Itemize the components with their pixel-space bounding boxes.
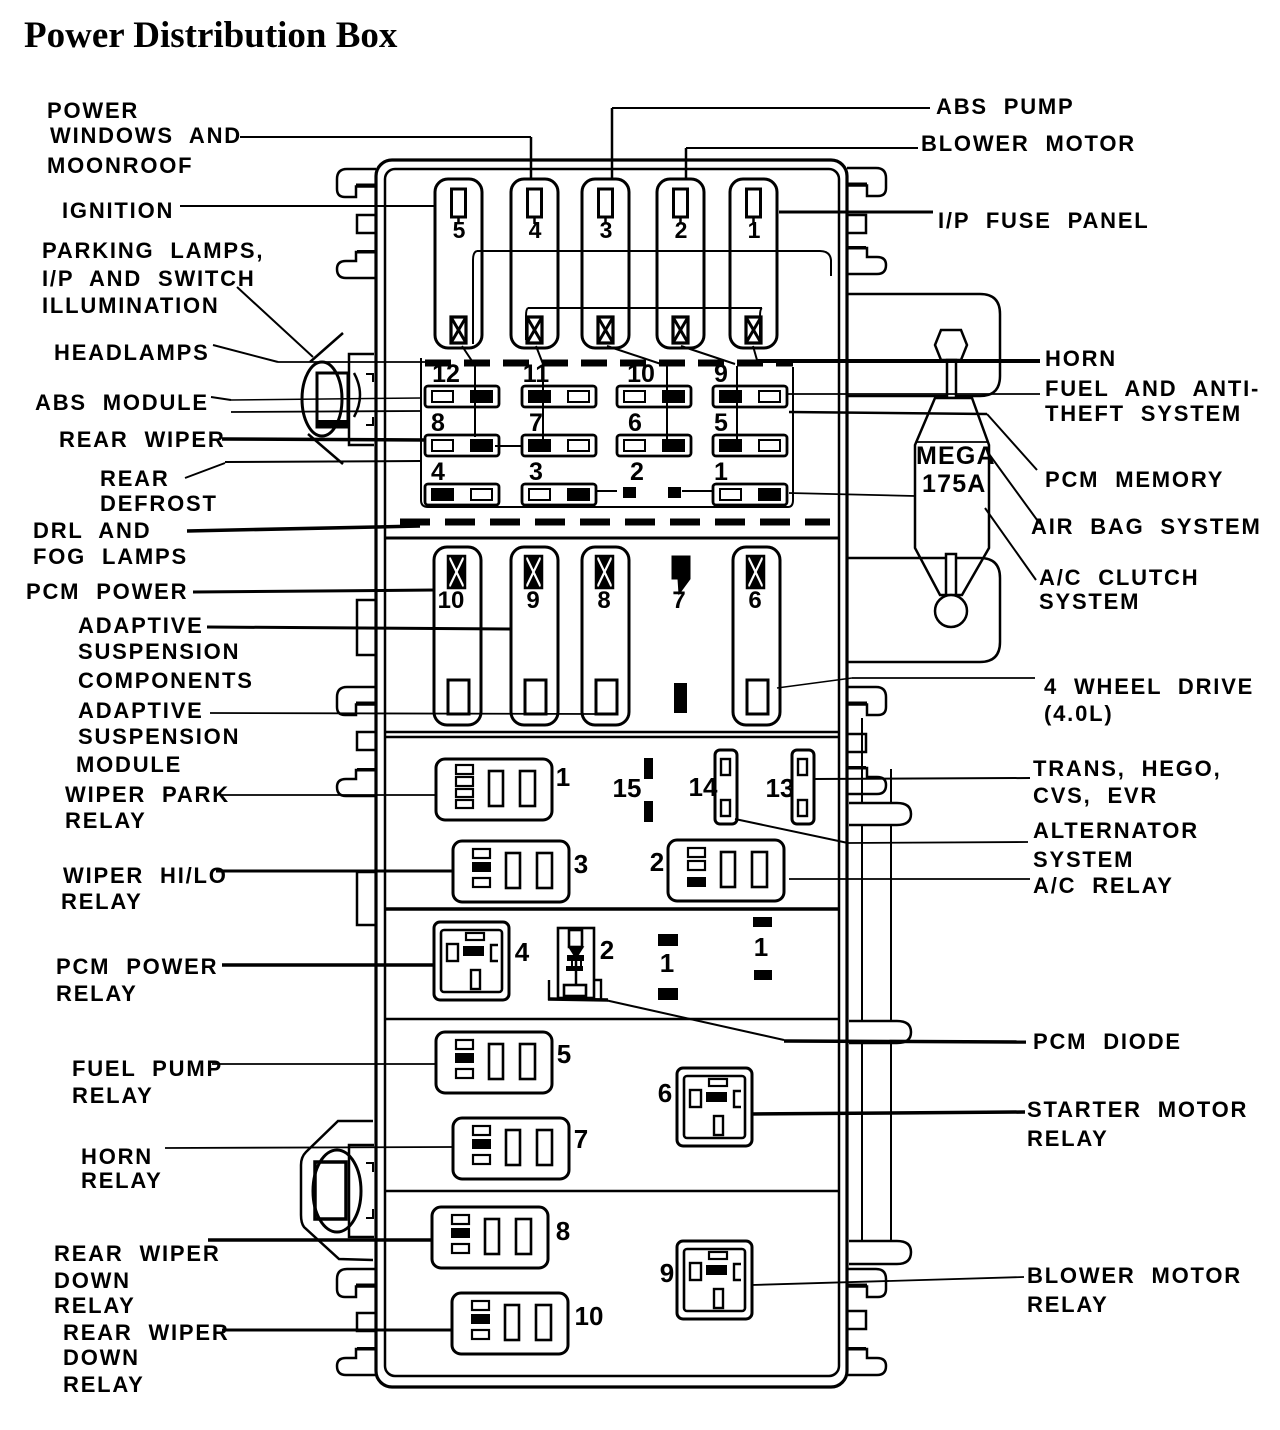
separator line below relay row 2-3 xyxy=(386,907,838,911)
svg-text:ADAPTIVE: ADAPTIVE xyxy=(78,613,204,638)
svg-text:15: 15 xyxy=(613,773,642,803)
wire elbow into fuse 5 xyxy=(473,251,477,344)
left mounting tab 9 xyxy=(337,1269,376,1297)
wire fuse 2 tail xyxy=(681,346,735,364)
right mounting tab 9 xyxy=(847,1349,886,1375)
leader REAR DEFROST xyxy=(185,463,225,478)
maxi fuse 5 element xyxy=(451,317,466,343)
svg-text:REAR WIPER: REAR WIPER xyxy=(59,427,226,452)
svg-text:6: 6 xyxy=(628,409,642,437)
left connector upper oval xyxy=(302,362,342,436)
separator line above maxi fuse row 10-6 xyxy=(386,537,838,540)
leader A/C RELAY xyxy=(789,878,1030,880)
svg-text:2: 2 xyxy=(600,935,614,965)
right mounting tab 4 xyxy=(847,687,886,715)
leader IGNITION xyxy=(180,205,436,207)
relay 6 pins xyxy=(709,1079,727,1086)
svg-text:7: 7 xyxy=(672,587,685,614)
leader HORN xyxy=(757,359,1040,363)
right mounting tab 5 xyxy=(847,734,866,752)
right mounting tab 1 xyxy=(847,168,886,196)
svg-text:MEGA: MEGA xyxy=(916,442,996,470)
leader BLOWER MOTOR xyxy=(686,147,918,149)
svg-text:COMPONENTS: COMPONENTS xyxy=(78,668,254,693)
leader BLOWER MOTOR RELAY xyxy=(752,1277,1024,1285)
svg-text:4: 4 xyxy=(529,217,542,243)
svg-text:8: 8 xyxy=(431,409,445,437)
svg-text:ADAPTIVE: ADAPTIVE xyxy=(78,698,204,723)
svg-text:2: 2 xyxy=(675,217,688,243)
wire vertical into fuse block 3 xyxy=(666,366,668,445)
maxi fuse 1 body xyxy=(730,179,777,348)
relay 7 body xyxy=(453,1118,569,1179)
relay 5 pins xyxy=(456,1040,473,1049)
svg-text:RELAY: RELAY xyxy=(1027,1292,1109,1317)
maxi fuse 8 terminal xyxy=(596,680,617,714)
right rail upper cap xyxy=(849,803,911,825)
leader REAR WIPER DOWN RELAY 2 xyxy=(222,1329,452,1332)
mini fuse 9 xyxy=(713,386,787,407)
svg-text:10: 10 xyxy=(438,587,465,614)
MEGA fuse lower stem xyxy=(946,554,956,595)
svg-text:MOONROOF: MOONROOF xyxy=(47,153,193,178)
left mounting tab 7 xyxy=(337,770,376,796)
maxi fuse 3 element xyxy=(598,317,613,343)
svg-text:6: 6 xyxy=(658,1078,672,1108)
svg-text:1: 1 xyxy=(660,948,674,978)
leader HEADLAMPS xyxy=(213,345,278,362)
svg-text:6: 6 xyxy=(748,587,761,614)
svg-text:RELAY: RELAY xyxy=(81,1168,163,1193)
maxi fuse 3 body xyxy=(582,179,629,348)
relay 10 body xyxy=(452,1293,568,1354)
leader TRANS HEGO xyxy=(813,778,1030,779)
svg-text:8: 8 xyxy=(556,1216,570,1246)
svg-text:FOG LAMPS: FOG LAMPS xyxy=(33,544,188,569)
svg-text:1: 1 xyxy=(748,217,761,243)
svg-text:RELAY: RELAY xyxy=(56,981,138,1006)
svg-text:A/C RELAY: A/C RELAY xyxy=(1033,873,1174,898)
leader ABS PUMP xyxy=(612,107,930,109)
svg-text:10: 10 xyxy=(575,1301,604,1331)
relay 4 body xyxy=(434,922,509,1000)
right mounting tab 7 xyxy=(847,1269,886,1297)
MEGA fuse upper stem xyxy=(947,360,956,398)
wire vertical into fuse block 1 xyxy=(474,366,476,437)
leader STARTER MOTOR RELAY xyxy=(751,1112,1025,1114)
fuse slot 1 left marks xyxy=(658,934,678,946)
mini fuse 4 xyxy=(425,484,499,505)
leader DRL AND FOG LAMPS xyxy=(187,526,420,531)
wire horizontal second xyxy=(528,307,762,309)
separator line below relay row 7 xyxy=(386,1190,838,1193)
right mounting tab 2 xyxy=(847,215,866,233)
svg-text:12: 12 xyxy=(432,360,460,388)
svg-text:(4.0L): (4.0L) xyxy=(1044,701,1113,726)
power distribution box outer shell xyxy=(376,160,847,1387)
svg-text:4: 4 xyxy=(515,937,530,967)
svg-text:13: 13 xyxy=(766,773,795,803)
left mounting tab 2 xyxy=(357,215,376,233)
svg-text:ALTERNATOR: ALTERNATOR xyxy=(1033,818,1199,843)
maxi fuse 9 terminal xyxy=(525,680,546,714)
svg-text:THEFT SYSTEM: THEFT SYSTEM xyxy=(1045,401,1242,426)
svg-text:STARTER MOTOR: STARTER MOTOR xyxy=(1027,1097,1248,1122)
left mounting tab 10 xyxy=(357,1313,376,1331)
leader HORN RELAY xyxy=(165,1147,453,1148)
svg-text:ILLUMINATION: ILLUMINATION xyxy=(42,293,220,318)
maxi fuse 6 body xyxy=(733,547,780,725)
svg-text:1: 1 xyxy=(556,762,570,792)
mini fuse 11 xyxy=(522,386,596,407)
svg-text:4: 4 xyxy=(431,458,445,486)
svg-text:PCM POWER: PCM POWER xyxy=(26,579,188,604)
leader PCM DIODE xyxy=(605,1000,784,1040)
left connector lower oval xyxy=(313,1150,361,1232)
relay 1 body xyxy=(436,759,552,820)
svg-text:HEADLAMPS: HEADLAMPS xyxy=(54,340,210,365)
wire fuse 3 tail xyxy=(607,346,664,365)
relay 3 body xyxy=(453,841,569,902)
fuse 15 upper slot xyxy=(644,758,653,779)
svg-text:9: 9 xyxy=(714,360,728,388)
left connector upper latch xyxy=(354,373,360,417)
left connector upper plate xyxy=(349,354,374,445)
leader A/C CLUTCH SYSTEM xyxy=(985,508,1036,580)
left mounting tab 4 xyxy=(357,600,376,655)
maxi fuse 7 empty slot flag xyxy=(672,556,690,594)
leader FUEL PUMP RELAY xyxy=(212,1063,436,1065)
svg-text:9: 9 xyxy=(660,1258,674,1288)
leader I/P FUSE PANEL xyxy=(779,211,933,214)
svg-text:3: 3 xyxy=(600,217,613,243)
svg-text:PARKING LAMPS,: PARKING LAMPS, xyxy=(42,238,264,263)
right mounting tab 8 xyxy=(847,1311,866,1329)
leader 4 WHEEL DRIVE xyxy=(777,678,852,688)
svg-text:WINDOWS AND: WINDOWS AND xyxy=(50,123,242,148)
maxi fuse 2 pin xyxy=(674,189,688,217)
wire fuse 1 tail xyxy=(753,346,757,360)
leader PCM POWER RELAY xyxy=(222,963,434,967)
relay 7 pins xyxy=(473,1126,490,1135)
relay 14 body xyxy=(715,750,737,824)
svg-text:175A: 175A xyxy=(922,470,987,498)
svg-text:11: 11 xyxy=(523,360,550,388)
maxi fuse 4 body xyxy=(511,179,558,348)
maxi fuse 4 pin xyxy=(528,189,542,217)
svg-text:I/P AND SWITCH: I/P AND SWITCH xyxy=(42,266,256,291)
svg-text:FUEL PUMP: FUEL PUMP xyxy=(72,1056,223,1081)
left mounting tab 8 xyxy=(357,872,376,925)
svg-text:SUSPENSION: SUSPENSION xyxy=(78,639,240,664)
right rail bottom cap xyxy=(849,1241,911,1264)
left mounting tab 5 xyxy=(337,687,376,715)
maxi fuse 10 element xyxy=(448,556,465,588)
svg-text:10: 10 xyxy=(627,360,655,388)
wire fuse 2 slot to fuse 1 xyxy=(682,490,713,492)
mini fuse 2 empty slot xyxy=(623,487,636,498)
svg-text:HORN: HORN xyxy=(81,1144,153,1169)
right rail middle cap xyxy=(849,1021,911,1043)
relay 2 pins xyxy=(688,848,705,857)
mini fuse 10 xyxy=(617,386,691,407)
svg-text:1: 1 xyxy=(714,458,728,486)
maxi fuse 5 body xyxy=(435,179,482,348)
maxi fuse 1 element xyxy=(746,317,761,343)
relay 3 pins xyxy=(473,849,490,858)
svg-text:SUSPENSION: SUSPENSION xyxy=(78,724,240,749)
leader ABS MODULE xyxy=(211,397,231,400)
svg-text:I/P FUSE PANEL: I/P FUSE PANEL xyxy=(938,208,1150,233)
maxi fuse 2 body xyxy=(657,179,704,348)
svg-text:WIPER PARK: WIPER PARK xyxy=(65,782,230,807)
svg-text:5: 5 xyxy=(714,409,728,437)
left mounting tab 11 xyxy=(337,1349,376,1375)
svg-text:SYSTEM: SYSTEM xyxy=(1039,589,1140,614)
right rail verticals xyxy=(861,826,863,1021)
separator double line below maxi fuse row 10-6 xyxy=(386,731,838,734)
fuse 15 lower slot xyxy=(644,801,653,822)
left mounting tab 1 xyxy=(337,169,376,197)
right mounting tab 3 xyxy=(847,248,886,274)
maxi fuse 9 body xyxy=(511,547,558,725)
svg-text:AIR BAG SYSTEM: AIR BAG SYSTEM xyxy=(1031,514,1262,539)
MEGA fuse bolt xyxy=(935,330,967,360)
svg-text:DOWN: DOWN xyxy=(63,1345,140,1370)
left mounting tab 3 xyxy=(337,252,376,278)
svg-text:8: 8 xyxy=(597,587,610,614)
svg-text:2: 2 xyxy=(650,847,664,877)
svg-text:PCM MEMORY: PCM MEMORY xyxy=(1045,467,1224,492)
svg-text:2: 2 xyxy=(630,458,644,486)
maxi fuse 6 terminal xyxy=(747,680,768,714)
mini fuse 7 xyxy=(522,435,596,456)
svg-text:PCM DIODE: PCM DIODE xyxy=(1033,1029,1182,1054)
svg-text:5: 5 xyxy=(453,217,466,243)
wire vertical into fuse block 4 xyxy=(736,366,738,440)
svg-text:BLOWER MOTOR: BLOWER MOTOR xyxy=(1027,1263,1242,1288)
maxi fuse 1 pin xyxy=(747,189,761,217)
svg-text:5: 5 xyxy=(557,1039,571,1069)
mini fuse 12 xyxy=(425,386,499,407)
svg-text:14: 14 xyxy=(689,772,718,802)
relay 5 body xyxy=(436,1032,552,1093)
maxi fuse 7 lower slot xyxy=(674,683,687,713)
mini fuse 3 xyxy=(522,484,596,505)
leader FUEL AND ANTI-THEFT xyxy=(786,393,1040,395)
svg-text:HORN: HORN xyxy=(1045,346,1117,371)
PCM diode D2 body xyxy=(558,928,594,998)
leader WIPER PARK xyxy=(222,794,436,796)
maxi fuse 2 element xyxy=(673,317,688,343)
mini fuse 6 xyxy=(617,435,691,456)
maxi fuse 10 terminal xyxy=(448,680,469,714)
svg-text:7: 7 xyxy=(574,1124,588,1154)
PCM diode D2 base xyxy=(564,985,586,996)
leader WIPER HI/LO xyxy=(216,870,453,873)
MEGA fuse lower bolt xyxy=(935,595,967,627)
svg-text:RELAY: RELAY xyxy=(72,1083,154,1108)
svg-text:RELAY: RELAY xyxy=(65,808,147,833)
mini fuse block top dashed border xyxy=(425,360,793,367)
leader POWER WINDOWS xyxy=(240,136,531,138)
relay 13 pins xyxy=(798,759,807,775)
svg-text:3: 3 xyxy=(574,849,588,879)
mini fuse 5 xyxy=(713,435,787,456)
svg-text:REAR WIPER: REAR WIPER xyxy=(63,1320,230,1345)
svg-text:MODULE: MODULE xyxy=(76,752,182,777)
maxi fuse 8 element xyxy=(596,556,613,588)
wire mini fuse 1 to MEGA fuse xyxy=(789,493,915,496)
relay 8 pins xyxy=(452,1215,469,1224)
leader ADAPTIVE SUSPENSION COMPONENTS xyxy=(207,627,511,629)
relay 6 body xyxy=(677,1068,752,1146)
left connector lower plate xyxy=(349,1145,374,1237)
maxi fuse 4 element xyxy=(527,317,542,343)
mini fuse block bottom dashed border xyxy=(400,519,830,526)
svg-text:RELAY: RELAY xyxy=(1027,1126,1109,1151)
left mounting tab 6 xyxy=(357,732,376,750)
svg-text:ABS MODULE: ABS MODULE xyxy=(35,390,209,415)
svg-text:CVS, EVR: CVS, EVR xyxy=(1033,783,1158,808)
maxi fuse 10 body xyxy=(434,547,481,725)
svg-text:PCM POWER: PCM POWER xyxy=(56,954,218,979)
mini fuse 1 xyxy=(713,484,787,505)
right mounting tab 6 xyxy=(847,768,886,794)
svg-text:WIPER HI/LO: WIPER HI/LO xyxy=(63,863,228,888)
relay 4 pins xyxy=(466,933,484,940)
mini fuse block outline xyxy=(421,358,793,507)
svg-text:4 WHEEL DRIVE: 4 WHEEL DRIVE xyxy=(1044,674,1254,699)
leader REAR WIPER xyxy=(222,439,425,440)
relay 9 pins xyxy=(709,1252,727,1259)
svg-text:RELAY: RELAY xyxy=(63,1372,145,1397)
relay 10 pins xyxy=(472,1301,489,1310)
svg-text:IGNITION: IGNITION xyxy=(62,198,174,223)
svg-text:ABS PUMP: ABS PUMP xyxy=(936,94,1075,119)
left connector upper window xyxy=(317,373,348,427)
maxi fuse 6 element xyxy=(747,556,764,588)
svg-text:Power Distribution Box: Power Distribution Box xyxy=(24,15,398,56)
svg-text:A/C CLUTCH: A/C CLUTCH xyxy=(1039,565,1199,590)
leader ADAPTIVE SUSPENSION MODULE xyxy=(210,713,597,714)
leader PCM MEMORY xyxy=(789,412,987,414)
relay 1 pins xyxy=(456,765,473,774)
leader PCM POWER xyxy=(193,590,435,592)
svg-text:DOWN: DOWN xyxy=(54,1268,131,1293)
left connector lower shell xyxy=(301,1121,373,1260)
svg-text:FUEL AND ANTI-: FUEL AND ANTI- xyxy=(1045,376,1260,401)
separator line below relay row 4 xyxy=(386,1018,838,1021)
left connector lower latch xyxy=(366,1163,373,1172)
svg-text:RELAY: RELAY xyxy=(61,889,143,914)
relay 8 body xyxy=(432,1207,548,1268)
MEGA fuse body xyxy=(915,398,989,595)
mini fuse 8 xyxy=(425,435,499,456)
svg-text:7: 7 xyxy=(529,409,543,437)
leader PARKING LAMPS xyxy=(237,287,313,357)
leader AIR BAG SYSTEM xyxy=(989,454,1040,524)
svg-text:BLOWER MOTOR: BLOWER MOTOR xyxy=(921,131,1136,156)
wire vertical into fuse block 2 xyxy=(542,366,544,448)
svg-text:TRANS, HEGO,: TRANS, HEGO, xyxy=(1033,756,1222,781)
wire fuse 3 to fuse 2 slot xyxy=(595,490,617,492)
fuse slot 1 right marks xyxy=(753,917,772,927)
relay 14 pins xyxy=(721,759,730,775)
svg-text:1: 1 xyxy=(754,932,768,962)
svg-text:POWER: POWER xyxy=(47,98,139,123)
right housing lower xyxy=(847,558,1000,662)
relay 13 body xyxy=(792,750,814,824)
wire fuse 8 to fuse 7 xyxy=(495,445,523,447)
wire elbow into fuse 2 area xyxy=(760,308,762,340)
PCM diode D2 symbol xyxy=(569,930,582,947)
power distribution box inner shell xyxy=(385,169,839,1376)
maxi fuse 5 pin xyxy=(452,189,466,217)
svg-text:REAR WIPER: REAR WIPER xyxy=(54,1241,221,1266)
left connector lower window xyxy=(315,1162,346,1219)
wire fuse 4 tail xyxy=(536,346,543,364)
svg-text:SYSTEM: SYSTEM xyxy=(1033,847,1134,872)
svg-text:DRL AND: DRL AND xyxy=(33,518,151,543)
relay 9 body xyxy=(677,1241,752,1319)
wire fuse 5 tail xyxy=(462,346,474,364)
right housing upper xyxy=(847,294,1000,396)
maxi fuse 8 body xyxy=(582,547,629,725)
leader ALTERNATOR SYSTEM xyxy=(735,819,848,843)
left connector upper shell xyxy=(310,333,343,362)
maxi fuse 3 pin xyxy=(599,189,613,217)
leader REAR WIPER DOWN RELAY 1 xyxy=(208,1238,432,1242)
svg-text:9: 9 xyxy=(526,587,539,614)
relay 2 body xyxy=(668,840,784,901)
maxi fuse 9 element xyxy=(525,556,542,588)
right rail stubs xyxy=(861,718,863,804)
svg-text:REAR: REAR xyxy=(100,466,170,491)
wire elbow into fuse 4 xyxy=(526,308,528,340)
svg-text:DEFROST: DEFROST xyxy=(100,491,218,516)
svg-text:RELAY: RELAY xyxy=(54,1293,136,1318)
wire horizontal upper xyxy=(477,251,831,276)
svg-text:3: 3 xyxy=(529,458,543,486)
